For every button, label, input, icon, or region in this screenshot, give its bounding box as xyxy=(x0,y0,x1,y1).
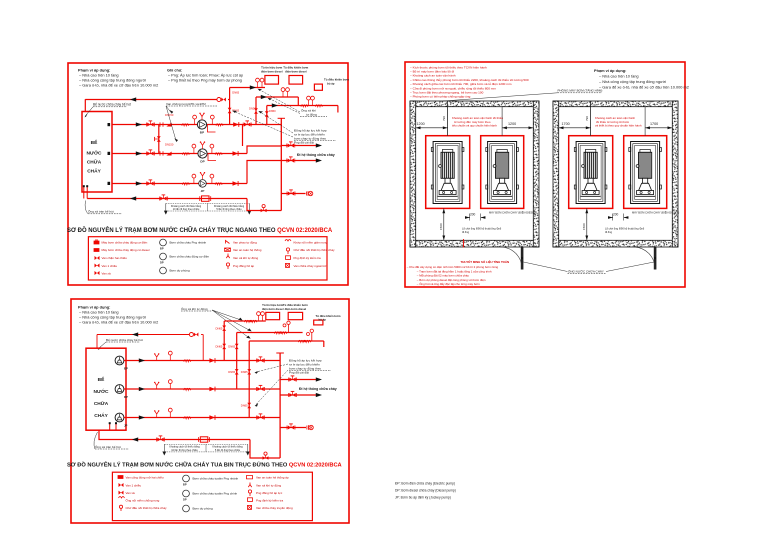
svg-text:Bơm chữa cháy tuabin Png nhánh: Bơm chữa cháy tuabin Png nhánh xyxy=(193,477,239,481)
svg-text:Van phao tự động: Van phao tự động xyxy=(233,241,257,245)
svg-text:Lỗ chờ ống Φ90 kỹ thuật ống Φy: Lỗ chờ ống Φ90 kỹ thuật ống Φy6 xyxy=(462,226,502,231)
svg-text:Van 1 chiều: Van 1 chiều xyxy=(126,483,142,487)
svg-text:– Gara ô-tô, nhà để xe cỡ đậu: – Gara ô-tô, nhà để xe cỡ đậu trên 10.00… xyxy=(79,83,158,88)
svg-text:MÁY BƠM CHỮA CHÁY (ĐIỆN-DIESEL: MÁY BƠM CHỮA CHÁY (ĐIỆN-DIESEL) xyxy=(489,210,536,215)
test / drain pipe bottom xyxy=(87,198,247,200)
riser R1 p2 xyxy=(223,321,225,361)
bottom run to manifold with PRV xyxy=(247,199,281,211)
interconnect valve between L1 L2 xyxy=(158,125,160,154)
svg-text:DN65: DN65 xyxy=(232,109,239,113)
plan red notes block xyxy=(410,65,529,98)
flow arrow on return pipe xyxy=(130,97,136,101)
fire water tank T1 xyxy=(82,112,112,193)
svg-text:Van chống rung ĐH1 và ĐH2: Van chống rung ĐH1 và ĐH2 xyxy=(166,102,206,106)
svg-text:1700: 1700 xyxy=(562,122,570,126)
svg-text:ĐP: ĐP xyxy=(160,247,164,251)
svg-text:Ống xả khí tự động: Ống xả khí tự động xyxy=(181,306,208,311)
svg-text:– Ống hút và ống đẩy độc lập c: – Ống hút và ống đẩy độc lập cho từng má… xyxy=(417,281,481,286)
red wall tick room1 xyxy=(463,239,465,248)
svg-text:Ống nối mềm chống rung: Ống nối mềm chống rung xyxy=(126,498,160,503)
svg-text:Van xả khí tự động: Van xả khí tự động xyxy=(233,256,258,260)
pump line M2 xyxy=(124,388,280,390)
svg-text:DP: DP xyxy=(160,261,164,265)
relief return pipe to tank xyxy=(85,99,217,101)
notes ghi chu xyxy=(167,69,243,83)
vertical turbine pump VP1 xyxy=(115,356,124,365)
svg-text:JP: Bơm bù áp định kỳ (Jockey: JP: Bơm bù áp định kỳ (Jockey pump) xyxy=(395,496,451,500)
pump line L3 jockey xyxy=(112,183,247,185)
svg-text:10 lần Φ ống theo chiều: 10 lần Φ ống theo chiều xyxy=(173,208,200,211)
dim 1200 left room1 xyxy=(416,122,448,129)
sensing run 1 xyxy=(230,87,265,89)
svg-text:DP: DP xyxy=(200,159,204,163)
legend box 2 xyxy=(112,472,312,520)
svg-text:DN150: DN150 xyxy=(165,143,174,147)
riser R3 p2 xyxy=(248,341,250,418)
pressure switch note block xyxy=(232,111,336,145)
notes scope of application p2 xyxy=(78,305,158,325)
tank drain stubs xyxy=(83,187,85,199)
control cabinet C2 xyxy=(289,76,303,85)
jockey cabinet C3 p2 xyxy=(314,320,323,325)
sensing run 1 p2 xyxy=(224,320,266,322)
room1 bottom note xyxy=(462,226,502,235)
output branch 1 xyxy=(281,145,317,147)
tank T1 text xyxy=(87,139,103,175)
pump line L2 xyxy=(112,153,247,155)
flowmeter spacing labels p2 xyxy=(162,444,249,455)
svg-text:DN150: DN150 xyxy=(165,113,174,117)
svg-text:ĐP: ĐP xyxy=(124,366,128,370)
svg-text:DN50: DN50 xyxy=(249,107,256,111)
svg-text:Png đồng hồ áp: Png đồng hồ áp xyxy=(233,264,255,268)
svg-text:5 lần Φ ống theo chiều: 5 lần Φ ống theo chiều xyxy=(215,449,241,452)
svg-text:điện-bơm diesel: điện-bơm diesel xyxy=(262,307,284,311)
svg-text:Ống xả tràn bể hút: Ống xả tràn bể hút xyxy=(95,444,121,449)
svg-text:790: 790 xyxy=(442,116,446,121)
svg-text:SƠ ĐỒ NGUYÊN LÝ TRẠM BƠM NƯỚC: SƠ ĐỒ NGUYÊN LÝ TRẠM BƠM NƯỚC CHỮA CHÁY … xyxy=(67,226,333,234)
svg-text:DN50: DN50 xyxy=(269,109,276,113)
vertical turbine pump VP3 xyxy=(115,413,124,422)
air vent label xyxy=(258,89,327,117)
dim 200 room2 xyxy=(608,212,628,220)
pump line L1 xyxy=(112,124,281,126)
svg-text:Png định kỳ kiểm tra: Png định kỳ kiểm tra xyxy=(294,256,322,260)
svg-text:200: 200 xyxy=(470,212,476,216)
cabinet2 pressure switches xyxy=(281,88,285,97)
svg-text:– Png: Áp lực tính toán; Pmax: – Png: Áp lực tính toán; Pmax: Áp lực cộ… xyxy=(168,74,243,78)
svg-text:Bể nước chữa cháy bể hút: Bể nước chữa cháy bể hút xyxy=(93,103,131,107)
anti-vibration label xyxy=(166,102,217,142)
pump base B1 xyxy=(426,136,470,209)
cabinet C1 label xyxy=(261,65,283,73)
svg-text:1700: 1700 xyxy=(650,122,658,126)
output branch 2 xyxy=(281,160,317,162)
svg-text:Png đồng hồ áp lực: Png đồng hồ áp lực xyxy=(256,491,283,495)
pump room label xyxy=(443,88,602,101)
pump plan unit PU2 xyxy=(486,142,519,204)
svg-text:ĐP: ĐP xyxy=(183,483,187,487)
cab2 sensor stack p2 xyxy=(288,321,290,333)
drain stub pump1 xyxy=(208,125,216,133)
svg-text:DN65: DN65 xyxy=(228,345,235,349)
centerline pump1 xyxy=(447,101,449,136)
flow meter FM2 xyxy=(200,437,208,442)
svg-text:1200: 1200 xyxy=(417,122,425,126)
svg-text:điện-bơm diesel: điện-bơm diesel xyxy=(285,69,307,73)
svg-text:BỂ: BỂ xyxy=(91,139,98,146)
pressure note block p2 xyxy=(255,358,332,406)
legend col1 xyxy=(94,240,150,275)
room2 red text xyxy=(595,116,642,128)
jockey pump JP xyxy=(199,180,207,188)
pump base B4 xyxy=(624,136,667,209)
pump line M3 xyxy=(124,417,280,419)
svg-text:Đi hệ thống chữa cháy: Đi hệ thống chữa cháy xyxy=(299,387,337,391)
svg-text:CHÁY: CHÁY xyxy=(87,168,101,175)
svg-text:ĐP: Bơm điện chữa cháy (Electr: ĐP: Bơm điện chữa cháy (Electric pump) xyxy=(395,482,455,486)
svg-text:Van chặn hai chiều: Van chặn hai chiều xyxy=(102,256,128,260)
svg-text:Png đã cài đặt: Png đã cài đặt xyxy=(294,140,314,144)
svg-text:bù áp: bù áp xyxy=(319,318,327,322)
riser R2 p2 xyxy=(236,333,238,390)
svg-text:Van an toàn hệ thống: Van an toàn hệ thống xyxy=(233,248,262,252)
svg-text:Ống xả tràn bể hút: Ống xả tràn bể hút xyxy=(88,209,114,214)
sensing run 2 xyxy=(256,96,298,98)
output branch 2 p2 xyxy=(280,394,317,396)
svg-text:Lỗ chờ ống Φ90 kỹ thuật ống Φy: Lỗ chờ ống Φ90 kỹ thuật ống Φy6 xyxy=(605,226,645,231)
svg-text:DN65: DN65 xyxy=(241,404,248,408)
svg-text:– Phòng bơm có biện pháp chống: – Phòng bơm có biện pháp chống ngập úng xyxy=(410,95,471,99)
svg-text:và thiết bị theo quy chuẩn hiệ: và thiết bị theo quy chuẩn hiện hành xyxy=(595,124,642,128)
legend box 1 xyxy=(88,237,327,280)
output branch 1 p2 xyxy=(280,379,317,381)
svg-text:Bơm dự phòng: Bơm dự phòng xyxy=(170,269,190,273)
vent above jockey pump xyxy=(200,172,205,179)
svg-text:DP: Bơm diesel chữa cháy (Dies: DP: Bơm diesel chữa cháy (Diesel pump) xyxy=(395,489,456,493)
svg-text:tự động: tự động xyxy=(306,112,317,116)
svg-text:SƠ ĐỒ NGUYÊN LÝ TRẠM BƠM NƯỚC: SƠ ĐỒ NGUYÊN LÝ TRẠM BƠM NƯỚC CHỮA CHÁY … xyxy=(67,461,342,469)
svg-text:Bơm chữa cháy Png nhánh: Bơm chữa cháy Png nhánh xyxy=(170,241,207,245)
flowmeter spacing labels xyxy=(164,203,251,214)
pressure relief valve PRV1 xyxy=(217,98,226,102)
vent above pump 2 xyxy=(200,141,205,148)
svg-text:Ghi chú:: Ghi chú: xyxy=(167,69,182,73)
svg-text:Chờ đấu nối thiết bị chữa cháy: Chờ đấu nối thiết bị chữa cháy xyxy=(126,506,167,510)
riser to sensing run 1 xyxy=(229,88,231,125)
dim 200 room1 xyxy=(465,212,485,220)
legend2 col2 xyxy=(183,475,239,512)
drain branch with hose cap p2 xyxy=(280,427,306,429)
svg-text:NƯỚC: NƯỚC xyxy=(94,387,110,395)
electric fire pump DP1 xyxy=(197,120,206,129)
sensing run 2 p2 xyxy=(237,332,303,334)
svg-text:DP: DP xyxy=(124,395,128,399)
svg-text:1500: 1500 xyxy=(439,223,443,230)
notes scope of application xyxy=(78,68,158,88)
cabinet C3 label xyxy=(324,78,349,86)
bottom run to manifold with PRV p2 xyxy=(250,440,280,459)
svg-text:PHÒNG MÁY BƠM (TẦNG HẦM): PHÒNG MÁY BƠM (TẦNG HẦM) xyxy=(558,88,603,93)
cabinet1 pressure switches xyxy=(256,78,260,87)
panel3 outer border xyxy=(405,62,685,287)
L1 into manifold xyxy=(242,125,244,147)
svg-text:DN65: DN65 xyxy=(216,327,223,331)
svg-text:DN65: DN65 xyxy=(232,91,239,95)
svg-text:THUYẾT MINH SỐ LIỆU TÍNH TOÁN: THUYẾT MINH SỐ LIỆU TÍNH TOÁN xyxy=(461,259,510,264)
svg-text:Bơm dự phòng: Bơm dự phòng xyxy=(193,507,213,511)
legend col3 xyxy=(225,240,262,269)
svg-text:ĐP: ĐP xyxy=(200,131,204,135)
cabinet3 pressure switches xyxy=(307,96,311,105)
room 2 walls xyxy=(553,101,678,247)
plan bottom red notes xyxy=(407,259,509,286)
pump base B2 xyxy=(481,136,524,209)
panel1 outer border xyxy=(68,63,348,285)
svg-text:– Gara ô-tô, nhà để xe cỡ đậu: – Gara ô-tô, nhà để xe cỡ đậu trên 10.00… xyxy=(79,320,158,325)
pump plan unit PU3 xyxy=(574,142,607,204)
svg-text:Bể nước chữa cháy bể hút: Bể nước chữa cháy bể hút xyxy=(106,338,143,342)
tank label with leader xyxy=(84,103,131,118)
manifold p2 xyxy=(279,353,281,458)
svg-text:Máy bơm chữa cháy động cơ điện: Máy bơm chữa cháy động cơ điện xyxy=(102,241,148,245)
drain stub pump2 xyxy=(208,154,216,161)
plan black notes xyxy=(594,68,689,90)
svg-text:CHỮA: CHỮA xyxy=(87,159,102,166)
svg-text:Van chữa cháy ngoài trời: Van chữa cháy ngoài trời xyxy=(294,264,328,268)
svg-text:Van 1 chiều: Van 1 chiều xyxy=(102,264,118,268)
svg-text:DN65: DN65 xyxy=(241,370,248,374)
legend col2 xyxy=(160,239,210,274)
riser bar room1 xyxy=(521,247,524,270)
discharge manifold xyxy=(280,118,282,210)
svg-text:Đi hệ thống chữa cháy: Đi hệ thống chữa cháy xyxy=(297,153,335,157)
svg-text:Png đã cài đặt: Png đã cài đặt xyxy=(289,370,309,374)
svg-text:BỂ: BỂ xyxy=(98,376,105,383)
overflow label p2 xyxy=(94,432,129,449)
svg-text:bù áp: bù áp xyxy=(327,82,335,86)
relief return pipe p2 xyxy=(97,334,190,336)
room 1 walls xyxy=(410,101,539,247)
pump line M1 xyxy=(124,360,280,362)
svg-text:1500: 1500 xyxy=(582,223,586,230)
tank drain stubs p2 xyxy=(109,424,111,431)
svg-text:Phạm vi áp dụng:: Phạm vi áp dụng: xyxy=(594,68,626,73)
svg-text:điện-bơm diesel: điện-bơm diesel xyxy=(261,69,283,73)
L2 jog to manifold xyxy=(247,146,281,154)
svg-text:ỐNG NƯỚC CHỮA CHÁY: ỐNG NƯỚC CHỮA CHÁY xyxy=(568,268,604,273)
legend2 col1 xyxy=(118,476,167,512)
dim 1200 right room1 xyxy=(502,107,533,136)
room2 bottom note xyxy=(605,226,645,235)
control cabinet C1 p2 xyxy=(266,312,280,319)
svg-text:Van cổng đóng mở hai chiều: Van cổng đóng mở hai chiều xyxy=(126,476,164,480)
diesel fire pump DP2 xyxy=(198,149,207,158)
svg-text:DN65: DN65 xyxy=(216,345,223,349)
vertical dim 1500 room2 xyxy=(582,208,588,240)
overflow label xyxy=(85,201,122,214)
dim 1700 left room2 xyxy=(559,122,591,129)
vent above pump 1 xyxy=(199,113,204,120)
svg-text:tiêu chuẩn và quy chuẩn hiện h: tiêu chuẩn và quy chuẩn hiện hành xyxy=(452,124,497,128)
riser to sensing run 2 xyxy=(255,97,257,125)
svg-text:JP: JP xyxy=(124,423,128,427)
pump plan unit PU4 xyxy=(629,142,662,204)
cabinet C2 label xyxy=(283,65,308,73)
svg-text:CHỮA: CHỮA xyxy=(94,400,109,407)
sensing run 3 xyxy=(267,105,338,107)
control cabinet C1 xyxy=(265,76,279,85)
test pipe bottom p2 xyxy=(99,430,250,439)
dim 1700 right room2 xyxy=(645,107,672,136)
svg-text:JP: JP xyxy=(201,189,205,193)
sensing run 3 p2 xyxy=(249,340,324,342)
svg-text:Bơm chữa cháy động cơ điện: Bơm chữa cháy động cơ điện xyxy=(170,255,210,259)
svg-text:CHÁY: CHÁY xyxy=(94,412,108,419)
L3 jog to output2 level xyxy=(247,161,281,184)
riser label xyxy=(524,262,655,274)
suction tank label p2 xyxy=(98,338,143,350)
svg-text:Van an toàn hệ thống áp: Van an toàn hệ thống áp xyxy=(256,476,289,480)
air vent label p2 xyxy=(181,306,252,339)
svg-text:Van chữa cháy truyền động: Van chữa cháy truyền động xyxy=(256,506,293,510)
svg-text:DN65: DN65 xyxy=(228,370,235,374)
pressure relief valve PRV2 xyxy=(189,333,198,337)
room1 red text xyxy=(452,116,503,128)
svg-text:DP: DP xyxy=(183,498,187,502)
control cabinet C2 p2 xyxy=(288,312,302,319)
drain branch with hose cap xyxy=(281,193,305,195)
svg-text:790: 790 xyxy=(585,116,589,121)
jockey control cabinet C3 xyxy=(314,84,322,90)
centerline pump3 xyxy=(590,101,592,136)
pump base B3 xyxy=(569,136,613,209)
svg-text:– Nhà công cộng tập trung đ: – Nhà công cộng tập trung đông người xyxy=(599,79,666,84)
svg-text:Máy bơm chữa cháy động cơ dies: Máy bơm chữa cháy động cơ diesel xyxy=(102,248,150,252)
svg-text:– Gara để xe ô-tô, nhà để x: – Gara để xe ô-tô, nhà để xe cỡ đậu trên… xyxy=(599,85,689,90)
svg-text:Bơm chữa cháy tuabin Png chính: Bơm chữa cháy tuabin Png chính xyxy=(193,492,238,496)
svg-text:– Mỗi phòng đặt 02 máy bơm chữ: – Mỗi phòng đặt 02 máy bơm chữa cháy xyxy=(417,273,470,278)
legend2 col3 xyxy=(247,476,293,511)
svg-text:điện-bơm diesel: điện-bơm diesel xyxy=(285,307,307,311)
tank T2 text xyxy=(94,376,110,419)
svg-text:Van xả khí tự động: Van xả khí tự động xyxy=(256,483,281,487)
svg-text:1200: 1200 xyxy=(508,122,516,126)
pump plan unit PU1 xyxy=(431,142,464,204)
svg-text:5 lần Φ ống theo chiều: 5 lần Φ ống theo chiều xyxy=(216,208,242,211)
abbreviation notes bottom right xyxy=(395,482,456,500)
svg-text:Khớp nối mềm giảm rung: Khớp nối mềm giảm rung xyxy=(294,241,328,245)
vertical dim 1500 room1 xyxy=(439,208,445,240)
legend col4 xyxy=(285,240,335,268)
svg-text:đi ống: đi ống xyxy=(605,230,613,234)
svg-text:– Png thiết kế theo Png máy b: – Png thiết kế theo Png máy bơm dự phòng xyxy=(168,79,242,83)
svg-text:– Nhà cao trên 10 tầng: – Nhà cao trên 10 tầng xyxy=(599,74,639,79)
cab3 sensor stack p2 xyxy=(311,329,313,341)
svg-text:NƯỚC: NƯỚC xyxy=(87,149,103,157)
panel2 outer border xyxy=(71,299,349,523)
svg-text:Png định kỳ kiểm tra: Png định kỳ kiểm tra xyxy=(256,499,284,503)
valve on riser 1 xyxy=(228,108,232,113)
riser to sensing run 3 xyxy=(266,106,268,125)
svg-text:10 lần Φ ống theo chiều: 10 lần Φ ống theo chiều xyxy=(171,449,198,452)
svg-text:đi ống: đi ống xyxy=(462,230,470,234)
riser bar room2 xyxy=(654,247,657,270)
svg-text:Van xả: Van xả xyxy=(102,271,111,275)
vertical turbine pump VP2 xyxy=(115,385,124,394)
svg-text:200: 200 xyxy=(613,212,619,216)
svg-text:Van xả: Van xả xyxy=(126,491,135,495)
svg-text:Chờ đấu nối thiết bị chữa cháy: Chờ đấu nối thiết bị chữa cháy xyxy=(294,248,335,252)
flow meter FM1 xyxy=(202,196,210,201)
fire water tank T2 xyxy=(86,348,126,430)
